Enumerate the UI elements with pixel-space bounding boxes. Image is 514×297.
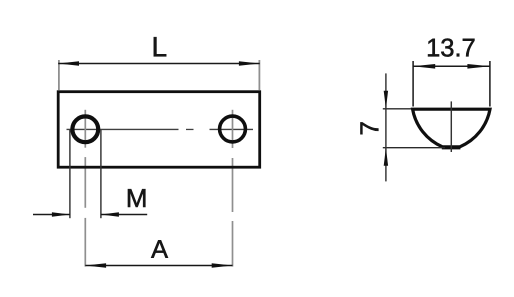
dimension 7 vertical line with outside arrows <box>385 73 387 181</box>
dimension A line with arrows (between hole centers) <box>85 265 232 267</box>
label L <box>154 37 166 56</box>
dimension L extension lines <box>59 60 260 90</box>
wire: vertical center line of right hole <box>232 110 234 267</box>
label A <box>151 240 168 258</box>
dimension 13.7 extension lines <box>413 61 490 107</box>
wire: horizontal center line through holes <box>67 128 254 130</box>
label M <box>128 189 145 207</box>
dimension M line with outside arrows <box>33 214 147 216</box>
profile body (flat top, two arcs meeting at bottom) <box>413 109 490 147</box>
wire: vertical center line of profile <box>450 101 452 152</box>
dimension 13.7 line with arrows <box>413 65 490 67</box>
label 13.7 <box>428 39 474 57</box>
hole left <box>72 116 98 142</box>
profile bottom flat <box>442 147 461 150</box>
dimension 7 extension lines <box>383 109 445 148</box>
plate body rectangle <box>58 92 260 168</box>
dimension M extension lines (hole diameter) <box>70 130 101 218</box>
label 7 (rotated) <box>360 122 378 134</box>
dimension L line with arrows <box>58 63 260 65</box>
hole right <box>220 116 246 142</box>
wire: vertical center line of left hole <box>84 110 86 267</box>
